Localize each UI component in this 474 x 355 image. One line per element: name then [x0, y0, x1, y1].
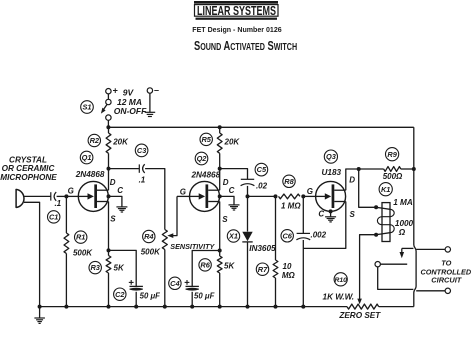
ground Q1 case [116, 207, 127, 212]
resistor R6 5K [217, 251, 222, 307]
svg-text:Q2: Q2 [197, 154, 208, 163]
wire drain node down to Q1 [108, 169, 110, 191]
label MICROPHONE [0, 173, 57, 182]
wire top V+ rail [108, 126, 413, 128]
transistor Q1 2N4868 [78, 181, 108, 211]
ref R1 [75, 231, 87, 243]
svg-text:LINEAR SYSTEMS: LINEAR SYSTEMS [197, 4, 276, 18]
node R9 right on V+ column [412, 167, 416, 171]
wire Q3 drain up [346, 169, 359, 190]
svg-text:C2: C2 [115, 290, 125, 299]
svg-text:Ω: Ω [398, 228, 406, 237]
ground battery - [145, 112, 156, 116]
transistor Q2 2N4868 [190, 181, 220, 211]
label OR CERAMIC [2, 164, 56, 173]
label D (Q3) [349, 176, 355, 185]
label 20K (R5) [224, 138, 241, 147]
wire gate node to Q1 gate [66, 195, 78, 197]
svg-text:.002: .002 [311, 231, 327, 240]
label C (Q3) [318, 210, 324, 219]
label S (Q1) [110, 215, 116, 224]
svg-text:R4: R4 [144, 232, 153, 241]
ref S1 [81, 101, 94, 114]
ref R5 [200, 133, 212, 145]
label 1000 (K1) [395, 219, 414, 228]
resistor R1 500K [64, 196, 69, 306]
svg-text:MΩ: MΩ [282, 271, 296, 280]
label 500K (R1) [73, 248, 93, 257]
svg-text:FET Design - Number 0126: FET Design - Number 0126 [192, 25, 281, 34]
label IN3605 [249, 244, 276, 253]
label CRYSTAL [9, 156, 47, 165]
wire Q2 source down [219, 202, 221, 251]
ref K1 [379, 183, 392, 196]
svg-text:G: G [180, 187, 186, 196]
wire Q3 source to ground rail [303, 202, 346, 249]
svg-text:C3: C3 [137, 146, 147, 155]
svg-text:IN3605: IN3605 [249, 244, 276, 253]
relay contact arm [380, 263, 407, 265]
wire C4 to rail [191, 292, 193, 307]
wire S1 to top rail [107, 120, 109, 127]
wire drain node down to Q2 [219, 169, 221, 191]
ref R7 [256, 263, 268, 275]
resistor R5 20K [217, 127, 222, 168]
label 12MA [117, 97, 142, 107]
ref C3 [135, 144, 148, 157]
label 5K (R6) [224, 262, 235, 271]
svg-text:2N4868: 2N4868 [190, 171, 220, 180]
wire battery- down [149, 93, 151, 112]
wire R3 node to C2 [109, 250, 137, 286]
node Q3 drain / relay branch [357, 167, 361, 171]
node relay coil top [374, 205, 378, 209]
wire pivot to bottom output terminal [378, 267, 446, 291]
wire C5 to X1 node [247, 186, 249, 197]
label 9V [123, 88, 135, 98]
ref R2 [88, 134, 100, 146]
node Q1 drain [107, 167, 111, 171]
ref Q2 [195, 152, 208, 165]
svg-text:2N4868: 2N4868 [75, 170, 105, 179]
svg-text:1 MΩ: 1 MΩ [281, 202, 301, 211]
svg-text:R5: R5 [201, 135, 211, 144]
wire C2 to rail [135, 292, 137, 307]
terminal output bottom [445, 288, 450, 293]
node Q2 case [218, 194, 222, 198]
R4 wiper arrow to Q2 gate [167, 196, 177, 238]
svg-text:D: D [110, 178, 116, 187]
svg-text:500K: 500K [141, 248, 161, 257]
node rail / C2 [134, 305, 138, 309]
svg-text:C: C [318, 210, 324, 219]
label SENSITIVITY [170, 242, 215, 251]
label .002 (C6) [311, 231, 327, 240]
node rail / R7 [274, 305, 278, 309]
label 20K (R2) [112, 137, 129, 146]
relay contact arm pivot [375, 262, 380, 267]
label C (Q1) [117, 186, 123, 195]
svg-text:TO: TO [441, 258, 451, 267]
node R6 top [218, 249, 222, 253]
label CIRCUIT [431, 275, 462, 284]
svg-text:K1: K1 [381, 185, 390, 194]
node R3 top [107, 248, 111, 252]
svg-text:C1: C1 [49, 213, 58, 222]
svg-text:500K: 500K [73, 248, 93, 257]
svg-text:C: C [117, 186, 123, 195]
wire battery+ to S1 [107, 94, 109, 100]
node top rail / S1 [106, 125, 110, 129]
svg-text:.1: .1 [54, 199, 61, 208]
logo LINEAR SYSTEMS black top bar [194, 1, 278, 4]
ref C5 [255, 163, 268, 176]
relay K1 coil loops [376, 207, 394, 234]
svg-text:1000: 1000 [395, 219, 414, 228]
svg-text:5K: 5K [114, 264, 125, 273]
resistor R2 20K [106, 127, 111, 168]
label G (Q3) [307, 187, 313, 196]
microphone crystal/ceramic [16, 189, 24, 208]
label .02 (C5) [256, 182, 268, 191]
logo LINEAR SYSTEMS text box [195, 4, 279, 18]
label MOhm (R7) [282, 271, 296, 280]
label ZERO SET [338, 311, 381, 320]
svg-text:R10: R10 [334, 277, 347, 284]
label 5K (R3) [114, 264, 125, 273]
potentiometer R4 500K [162, 230, 167, 307]
wire Q3 case down [330, 211, 332, 216]
wire Q1 drain to C3 [109, 168, 140, 170]
ref C2 [114, 288, 126, 300]
svg-text:9V: 9V [123, 88, 135, 98]
label 2N4868 (Q2) [190, 171, 220, 180]
wire mic top to C1 [25, 195, 51, 197]
capacitor C6 .002 [296, 196, 310, 306]
svg-text:50 μF: 50 μF [194, 292, 215, 301]
ref Q3 [324, 150, 337, 163]
ground main rail [34, 307, 45, 324]
node rail / C4 [190, 305, 194, 309]
ground Q2 case [229, 205, 240, 210]
ref R4 [143, 230, 155, 242]
svg-text:1K W.W.: 1K W.W. [323, 293, 355, 302]
svg-text:R1: R1 [76, 233, 85, 242]
capacitor C4 50uF electrolytic [185, 280, 199, 291]
wire R6 node to C4 [192, 251, 220, 287]
svg-text:SOUND ACTIVATED SWITCH: SOUND ACTIVATED SWITCH [194, 40, 297, 54]
svg-text:G: G [307, 187, 313, 196]
svg-text:C5: C5 [257, 165, 267, 174]
node relay coil bottom [374, 233, 378, 237]
node top rail / R5 [218, 125, 222, 129]
resistor R8 1M [279, 194, 301, 199]
resistor R7 10M [273, 196, 278, 306]
battery - terminal [147, 85, 159, 95]
ref C4 [169, 277, 181, 289]
title Sound Activated Switch [194, 40, 297, 54]
resistor R9 500 [359, 167, 414, 172]
label CONTROLLED [420, 267, 471, 276]
node C5 / X1 / R8 [246, 194, 250, 198]
wire R8 to Q3 gate [303, 195, 316, 197]
node R8 right / C6 [301, 194, 305, 198]
wire wiper node to Q2 gate [177, 195, 190, 197]
svg-text:Q1: Q1 [82, 153, 92, 162]
node rail / mic [38, 305, 42, 309]
wire bottom ground rail [40, 306, 347, 308]
wire Q1 source down [108, 202, 110, 251]
node rail / R4 [163, 305, 167, 309]
logo bottom rule [196, 18, 278, 20]
label D (Q1) [110, 178, 116, 187]
ref R8 [283, 175, 295, 187]
node Q1 gate [64, 194, 68, 198]
node rail / C6 [301, 305, 305, 309]
svg-text:S1: S1 [82, 103, 91, 112]
svg-text:1 MA: 1 MA [393, 198, 413, 207]
node Q3 case [329, 209, 333, 213]
ref X1 [227, 230, 239, 242]
wire drain branch to relay coil [359, 169, 376, 207]
label S (Q3) [350, 210, 356, 219]
ref Q1 [80, 151, 93, 164]
wire right V+ column [414, 127, 416, 306]
capacitor C3 .1 [139, 164, 144, 173]
capacitor C5 .02 [241, 179, 255, 185]
wire mic bottom [24, 202, 40, 306]
label 500 Ohm (R9) [383, 172, 403, 181]
svg-text:MICROPHONE: MICROPHONE [0, 173, 57, 182]
label S (Q2) [222, 215, 228, 224]
ref C6 [281, 230, 293, 242]
svg-text:500Ω: 500Ω [383, 172, 403, 181]
label 10 (R7) [283, 262, 292, 271]
svg-text:SENSITIVITY: SENSITIVITY [170, 242, 215, 251]
svg-text:R6: R6 [200, 261, 210, 270]
wire coil bottom to R10 wiper [357, 235, 376, 305]
svg-text:D: D [349, 176, 355, 185]
svg-text:20K: 20K [224, 138, 241, 147]
ground Q3 case [325, 217, 336, 222]
terminal output top [445, 247, 450, 252]
svg-text:R8: R8 [284, 177, 294, 186]
ref C1 [48, 211, 60, 223]
ref R3 [89, 261, 101, 273]
capacitor C2 50uF electrolytic [129, 280, 143, 291]
switch S1 blade arrow [101, 105, 107, 114]
relay fixed contact arrow [400, 248, 405, 258]
svg-text:R7: R7 [258, 265, 268, 274]
label 1 MOhm (R8) [281, 202, 301, 211]
svg-text:U183: U183 [322, 168, 342, 177]
label .1 (C3) [139, 175, 146, 184]
node Q2 drain [218, 167, 222, 171]
label 1K W.W. [323, 293, 355, 302]
svg-text:C: C [229, 186, 235, 195]
svg-text:10: 10 [283, 262, 292, 271]
ref R6 [199, 259, 211, 271]
label 500K (R4) [141, 248, 161, 257]
svg-text:G: G [68, 186, 74, 195]
title FET Design - Number 0126 [192, 25, 281, 34]
ref R10 [334, 273, 347, 286]
switch S1 bottom terminal [106, 115, 111, 120]
wire C1 to Q1 gate node [57, 195, 67, 197]
node R8 left / R7 [274, 194, 278, 198]
label 1 MA (K1) [393, 198, 413, 207]
wire Q1 case to ground [109, 196, 122, 206]
svg-text:S: S [110, 215, 116, 224]
label G (Q2) [180, 187, 186, 196]
svg-text:5K: 5K [224, 262, 235, 271]
wire Q2 drain to C5 [220, 169, 248, 180]
wire fixed contact to top output terminal [402, 248, 445, 249]
svg-text:–: – [154, 85, 159, 95]
svg-text:S: S [350, 210, 356, 219]
label U183 [322, 168, 342, 177]
node rail / R3 [107, 305, 111, 309]
potentiometer R10 1K zero set [347, 304, 414, 309]
label Ohm (K1) [398, 228, 406, 237]
node rail / X1 [246, 305, 250, 309]
svg-text:Q3: Q3 [326, 152, 337, 161]
svg-text:20K: 20K [112, 137, 129, 146]
capacitor C1 .1 [51, 192, 56, 201]
svg-text:R3: R3 [90, 263, 100, 272]
diode X1 IN3605 [242, 196, 252, 306]
svg-text:R9: R9 [387, 150, 397, 159]
switch S1 top terminal [106, 99, 111, 104]
transistor Q3 U183 [316, 181, 346, 211]
node Q1 case [107, 194, 111, 198]
label 50 uF (C2) [140, 292, 161, 301]
label .1 (C1) [54, 199, 61, 208]
svg-text:.1: .1 [139, 175, 146, 184]
svg-text:.02: .02 [256, 182, 268, 191]
ref R9 [386, 148, 399, 161]
label 2N4868 (Q1) [75, 170, 105, 179]
battery + terminal [106, 85, 118, 95]
label ON-OFF [114, 106, 147, 116]
wire to R8 [248, 195, 276, 197]
svg-text:C6: C6 [282, 231, 292, 240]
svg-text:X1: X1 [228, 232, 238, 241]
label C (Q2) [229, 186, 235, 195]
label D (Q2) [223, 178, 229, 187]
svg-text:ZERO SET: ZERO SET [338, 311, 381, 320]
node rail / R6 [218, 305, 222, 309]
label TO [441, 258, 451, 267]
svg-text:ON-OFF: ON-OFF [114, 106, 147, 116]
relay K1 core [382, 203, 390, 242]
label 50 uF (C4) [194, 292, 215, 301]
svg-text:S: S [222, 215, 228, 224]
svg-text:R2: R2 [90, 136, 100, 145]
svg-text:CIRCUIT: CIRCUIT [431, 275, 462, 284]
svg-text:50 μF: 50 μF [140, 292, 161, 301]
label G (Q1) [68, 186, 74, 195]
wire Q2 case to ground [220, 196, 234, 204]
wire C3 to R4 top [145, 169, 165, 230]
resistor R3 5K [106, 250, 111, 306]
svg-text:+: + [113, 85, 118, 95]
svg-text:C4: C4 [170, 279, 179, 288]
node rail / R1 [64, 305, 68, 309]
